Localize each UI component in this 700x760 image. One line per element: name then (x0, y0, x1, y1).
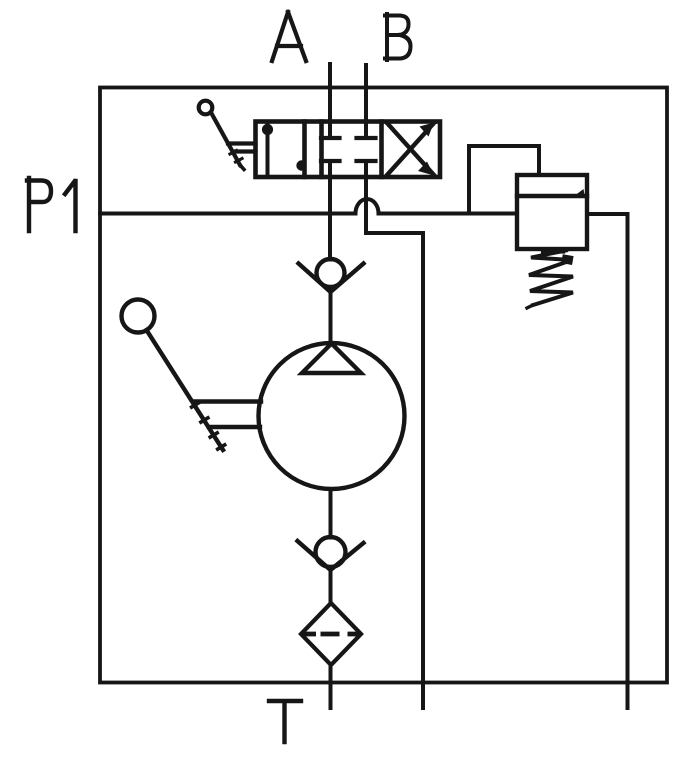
label P1 (port P1) (27, 178, 76, 231)
wire check valve CV1 to pump (329, 292, 333, 343)
valve V1 right position crossed arrows (388, 123, 435, 176)
label A (port A) (272, 12, 306, 61)
valve V1 manual lever (199, 101, 256, 170)
wire pilot line to relief valve (469, 146, 539, 214)
enclosure border frame (100, 88, 667, 683)
hand pump P body (259, 343, 405, 489)
valve V1 center position blocked ports (321, 138, 376, 161)
filter F1 (301, 603, 361, 665)
relief valve RV1 spring (527, 251, 574, 309)
wire pump to check valve CV2 (329, 489, 333, 538)
wire port A line (328, 64, 332, 138)
valve V1 left position detail (262, 122, 307, 178)
wire check valve CV2 to filter (329, 570, 333, 603)
label T (tank port) (269, 701, 301, 742)
wire filter to tank T (329, 665, 333, 708)
directional valve V1 body (256, 122, 441, 178)
relief valve RV1 body (517, 175, 587, 249)
wire B branch down to tank (366, 161, 423, 708)
label B (port B) (385, 14, 411, 60)
check valve CV1 (299, 259, 364, 292)
hand pump P lever (122, 300, 262, 451)
wire port B line (364, 65, 368, 138)
wire valve to check valve CV1 (328, 161, 332, 260)
check valve CV2 (298, 537, 364, 570)
wire P1 supply line with hop over B branch (100, 199, 628, 708)
